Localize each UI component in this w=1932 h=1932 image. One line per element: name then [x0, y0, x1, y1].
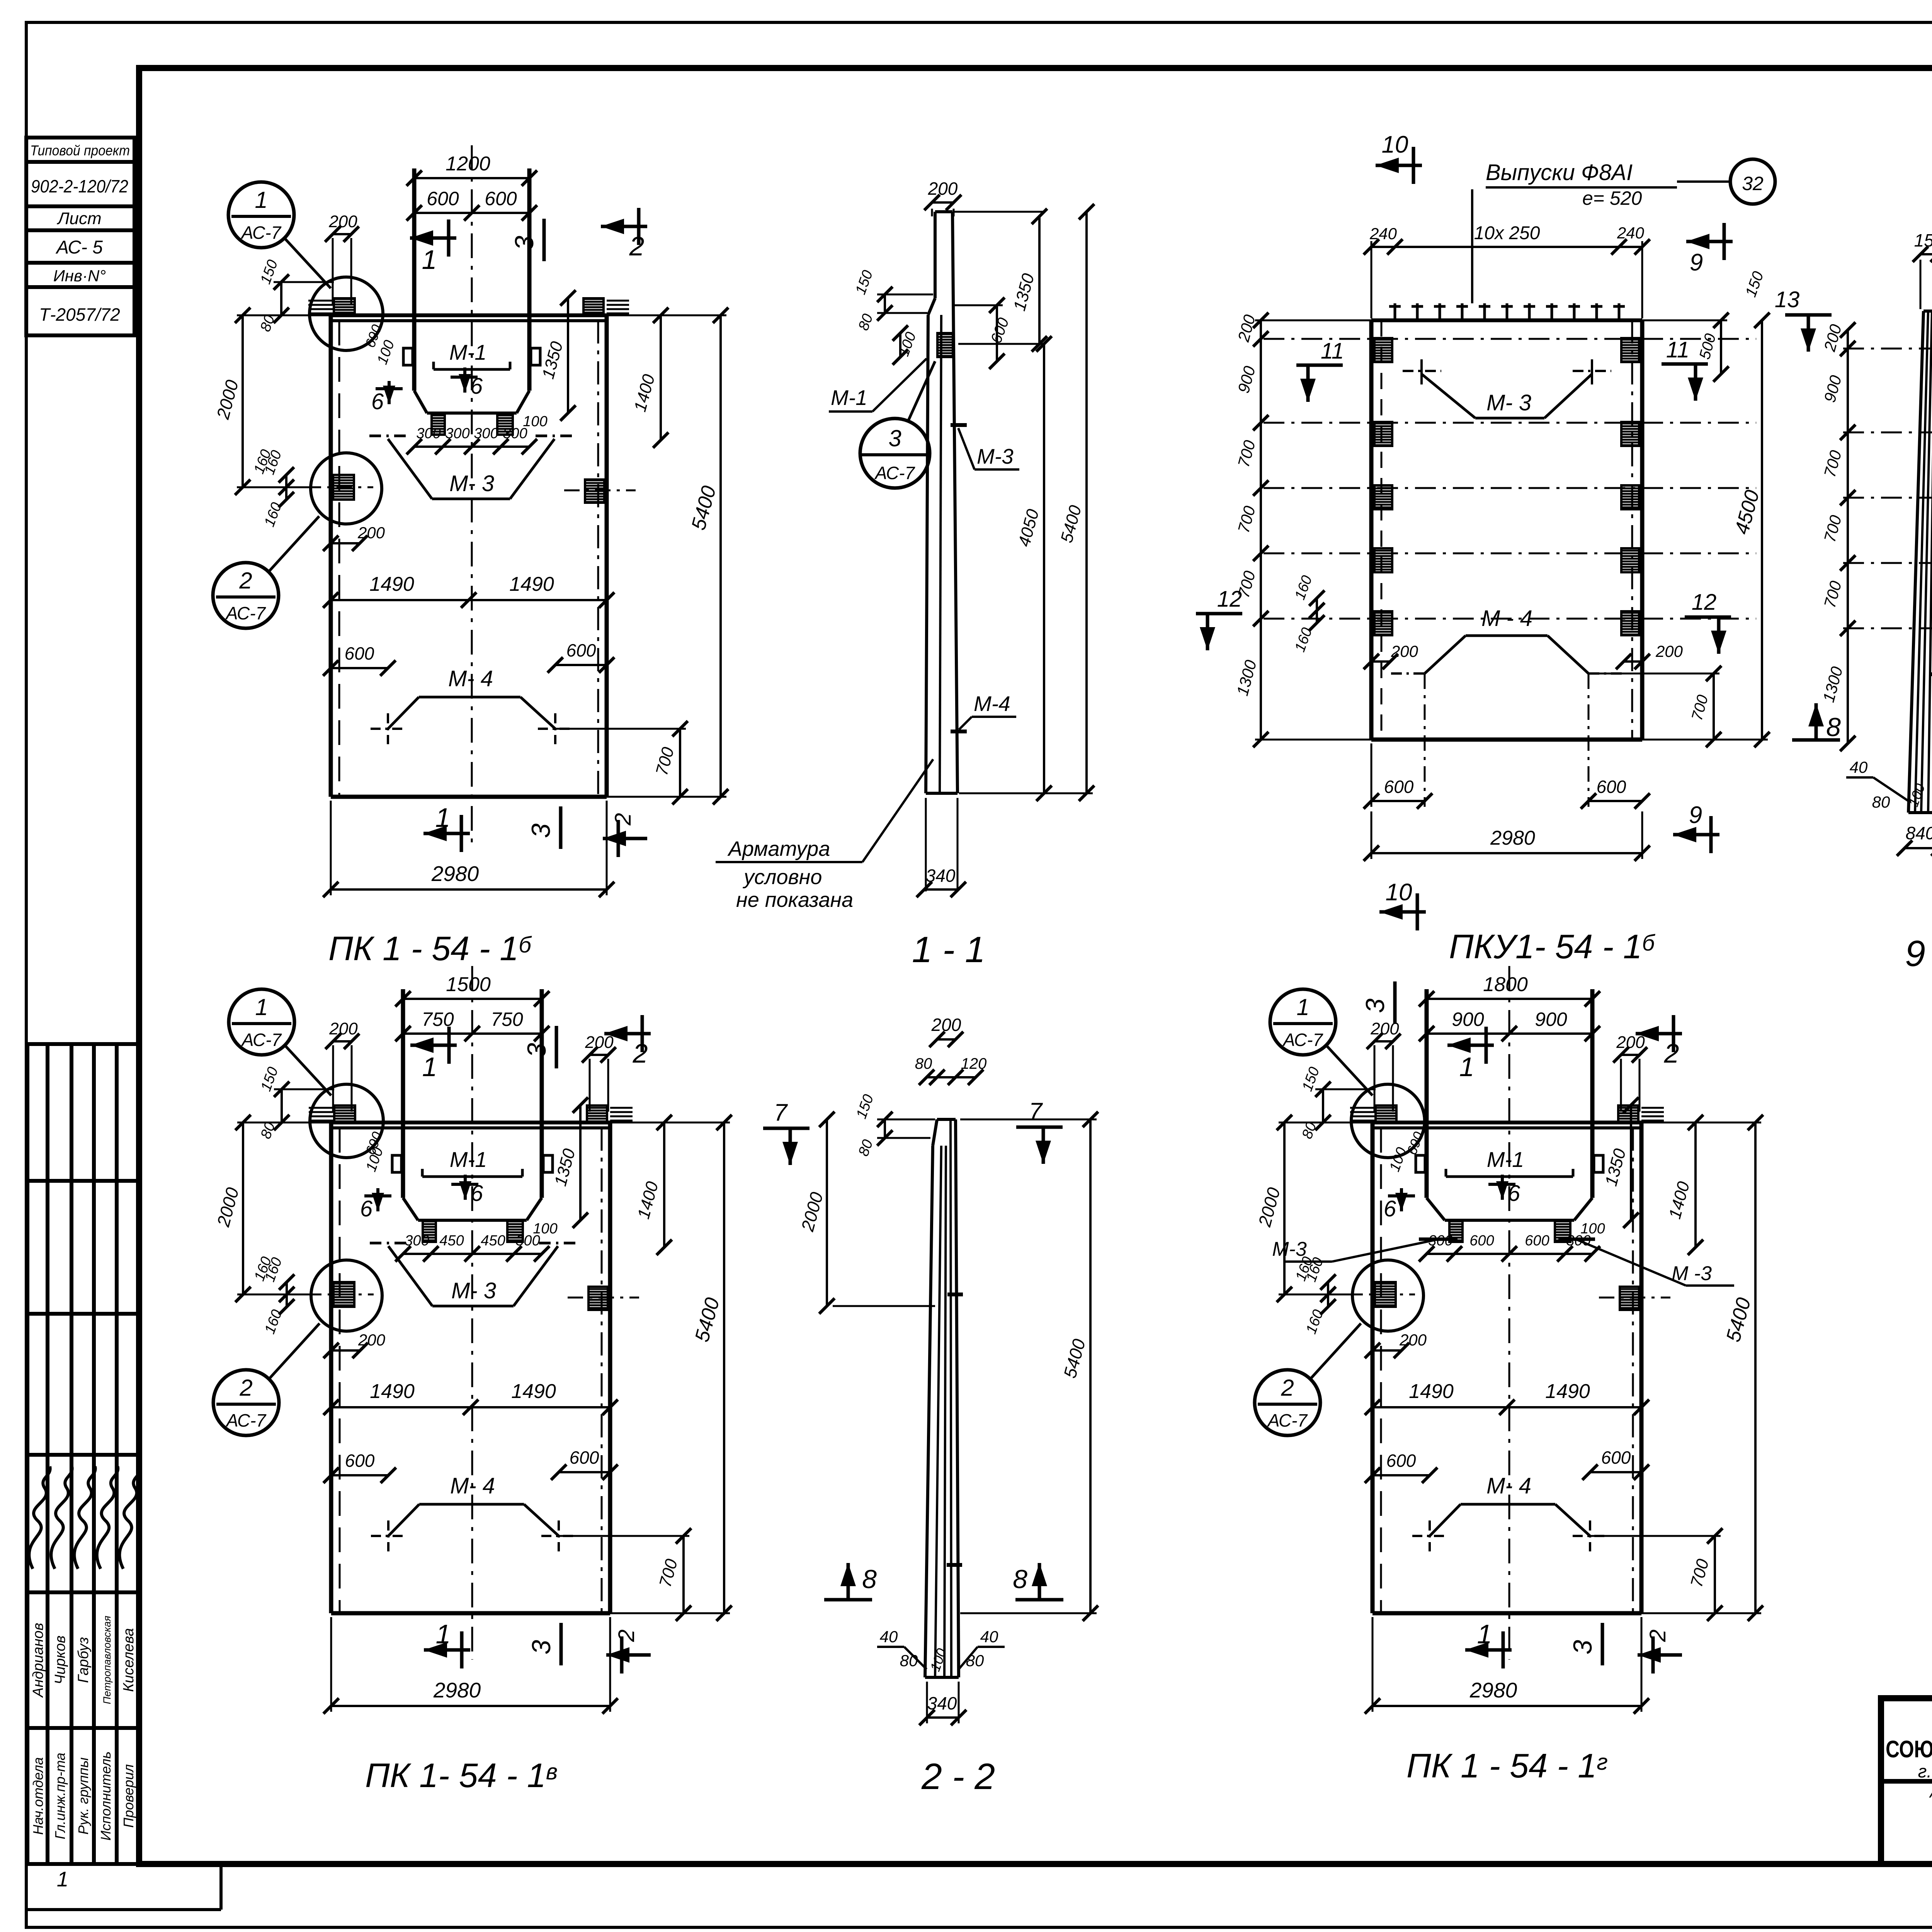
PKU bottom dims 600 600: [1371, 800, 1425, 802]
mesh M-4 panel ПК1-54-1г: [1430, 1504, 1461, 1536]
section mark 2 top panel ПК1-54-1б: [601, 225, 647, 228]
PKU dim 2980: [1371, 852, 1642, 854]
svg-text:2: 2: [1281, 1375, 1294, 1401]
svg-text:М- 4: М- 4: [450, 1473, 495, 1498]
PKU dim 700 right: [1713, 673, 1715, 740]
PKU mark 9 bottom: [1673, 833, 1719, 837]
svg-text:600: 600: [1601, 1447, 1631, 1468]
signature table: [26, 1044, 29, 1864]
svg-text:2: 2: [611, 813, 636, 826]
svg-text:условно: условно: [742, 866, 822, 889]
svg-text:6: 6: [371, 389, 384, 414]
svg-text:1: 1: [422, 1052, 437, 1082]
dim 5400 right panel ПК1-54-1б: [719, 315, 722, 797]
svg-text:12: 12: [1217, 587, 1242, 612]
dim 600 600 at M-4 panel ПК1-54-1в: [331, 1474, 388, 1476]
svg-text:Гарбуз: Гарбуз: [75, 1637, 92, 1683]
svg-text:М-1: М-1: [450, 1147, 487, 1172]
top chute dims panel ПК1-54-1б: [414, 177, 529, 179]
PKU mark 9 top: [1686, 240, 1733, 243]
svg-text:2: 2: [239, 568, 252, 594]
svg-text:Рук. группы: Рук. группы: [75, 1757, 91, 1835]
svg-text:1: 1: [255, 187, 267, 213]
svg-text:М- 3: М- 3: [451, 1278, 496, 1303]
mesh M-3 panel ПК1-54-1б: [388, 439, 432, 499]
svg-text:340: 340: [927, 1693, 957, 1713]
dim 300 row panel ПК1-54-1г: [1427, 1253, 1592, 1255]
dim 1400 right panel ПК1-54-1г: [1694, 1122, 1697, 1247]
svg-text:3: 3: [526, 823, 556, 838]
svg-text:200: 200: [328, 212, 357, 231]
svg-text:М- 3: М- 3: [449, 471, 494, 496]
svg-text:3: 3: [510, 236, 539, 250]
hopper M-1 panel ПК1-54-1б: [414, 391, 427, 413]
svg-text:Петропавловская: Петропавловская: [101, 1616, 113, 1704]
svg-text:2 - 2: 2 - 2: [921, 1756, 995, 1797]
svg-text:2980: 2980: [1469, 1678, 1517, 1702]
detail circle mid loop panel ПК1-54-1б: [311, 453, 382, 524]
sidebar stamp boxes: [26, 138, 134, 162]
svg-text:80: 80: [1872, 793, 1890, 811]
svg-text:8: 8: [1013, 1565, 1027, 1594]
chute walls panel ПК1-54-1г: [1425, 989, 1429, 1198]
top lifting loops panel ПК1-54-1г: [1376, 1105, 1396, 1122]
dim 600 600 at M-4 panel ПК1-54-1б: [331, 667, 388, 669]
svg-text:6: 6: [470, 374, 483, 399]
dim 600 600 at M-4 panel ПК1-54-1г: [1372, 1474, 1430, 1476]
detail circle top loop panel ПК1-54-1б: [310, 277, 383, 350]
svg-text:М- 3: М- 3: [1486, 390, 1531, 415]
9-9 horizontal chain lines: [1843, 348, 1932, 350]
svg-text:6: 6: [360, 1196, 373, 1221]
9-9 top dim 150: [1920, 253, 1932, 255]
dim 200 top-left loop panel ПК1-54-1б: [333, 233, 351, 235]
svg-text:3: 3: [522, 1043, 551, 1058]
svg-text:АС-7: АС-7: [1282, 1030, 1323, 1050]
dim 1350 at chute panel ПК1-54-1в: [579, 1105, 582, 1220]
svg-text:М-1: М-1: [1487, 1147, 1524, 1172]
dim 1490 1490 panel ПК1-54-1г: [1372, 1406, 1641, 1408]
svg-text:840: 840: [1906, 823, 1932, 843]
svg-text:2: 2: [629, 231, 645, 261]
svg-text:9: 9: [1689, 802, 1702, 828]
dim 2000 left panel ПК1-54-1в: [242, 1122, 244, 1294]
PKU mark 12 right: [1685, 616, 1731, 619]
svg-text:СОЮЗВОДОКАНАЛПРОЕКТ: СОЮЗВОДОКАНАЛПРОЕКТ: [1886, 1736, 1932, 1763]
svg-text:200: 200: [329, 1019, 358, 1038]
svg-text:11: 11: [1321, 338, 1344, 364]
svg-text:М-1: М-1: [449, 340, 486, 364]
1-1 wall outline: [934, 212, 937, 298]
chute walls panel ПК1-54-1б: [412, 168, 417, 391]
svg-text:ПК 1- 54 - 1в: ПК 1- 54 - 1в: [365, 1756, 558, 1794]
svg-text:600: 600: [566, 640, 596, 660]
dim 1350 at chute panel ПК1-54-1г: [1630, 1105, 1632, 1220]
section mark 2 top panel ПК1-54-1г: [1636, 1032, 1682, 1036]
svg-text:Нач.отдела: Нач.отдела: [30, 1757, 46, 1835]
2-2 mark 8 left: [824, 1598, 872, 1602]
svg-text:АС-7: АС-7: [225, 1410, 267, 1430]
PKU dim 160 160: [1316, 598, 1318, 623]
svg-text:Аэротенки - смесители: Аэротенки - смесители: [1929, 1784, 1932, 1801]
svg-text:10: 10: [1382, 131, 1408, 158]
dim 200 top-left loop panel ПК1-54-1в: [333, 1040, 352, 1043]
svg-text:АС-7: АС-7: [225, 603, 266, 623]
2-2 dim 2000: [826, 1119, 828, 1306]
top lifting loops panel ПК1-54-1в: [334, 1105, 355, 1122]
dim 1350 at chute panel ПК1-54-1б: [567, 298, 569, 413]
1-1 M-3 label: [951, 423, 967, 427]
svg-text:200: 200: [585, 1033, 614, 1052]
section marks top panel ПК1-54-1г: [1447, 1044, 1494, 1047]
svg-text:600: 600: [1469, 1233, 1494, 1249]
svg-text:1: 1: [1296, 994, 1309, 1020]
panel ПК1-54-1в body: [329, 1122, 333, 1613]
svg-text:340: 340: [926, 866, 956, 886]
dim 200 top-left loop panel ПК1-54-1г: [1374, 1040, 1393, 1043]
svg-text:М- 4: М- 4: [448, 666, 493, 691]
wire: inner dashed edges: [339, 1128, 341, 1613]
PKU mark 11 left: [1296, 364, 1343, 367]
svg-text:80: 80: [900, 1651, 918, 1670]
svg-text:Исполнитель: Исполнитель: [98, 1752, 114, 1841]
svg-text:600: 600: [1525, 1233, 1549, 1249]
svg-text:АС-7: АС-7: [240, 223, 282, 243]
svg-text:450: 450: [439, 1233, 464, 1249]
dims 150 80 topleft panel ПК1-54-1г: [1315, 1088, 1376, 1090]
PKU lifting loops: [1374, 338, 1392, 362]
wire: inner dashed edges: [338, 321, 340, 797]
svg-text:900: 900: [1452, 1009, 1484, 1030]
PKU dim 4500: [1761, 320, 1763, 740]
mesh M-4 panel ПК1-54-1в: [388, 1504, 419, 1536]
dim 1490 1490 panel ПК1-54-1б: [331, 599, 607, 601]
mesh M-3 panel ПК1-54-1в: [388, 1246, 432, 1306]
svg-text:9: 9: [1690, 249, 1703, 276]
dim 5400 right panel ПК1-54-1в: [723, 1122, 725, 1613]
dim 1400 right panel ПК1-54-1б: [660, 315, 662, 440]
section mark 2 top panel ПК1-54-1в: [604, 1032, 651, 1036]
2-2 top dims: [937, 1038, 956, 1041]
svg-text:2: 2: [614, 1629, 639, 1642]
svg-text:2: 2: [1664, 1038, 1679, 1068]
svg-text:9 - 9: 9 - 9: [1905, 933, 1932, 974]
chute walls panel ПК1-54-1в: [401, 989, 405, 1198]
dim 200 top-right loop panel ПК1-54-1г: [1621, 1054, 1639, 1056]
PKU dims 200 at bottom loops: [1371, 660, 1390, 663]
1-1 M-4 label: [951, 730, 967, 733]
svg-text:1 - 1: 1 - 1: [912, 929, 985, 970]
bottom section marks panel ПК1-54-1г: [1465, 1648, 1512, 1652]
title block: [1881, 1698, 1932, 1864]
svg-text:АС-7: АС-7: [241, 1030, 282, 1050]
svg-text:Типовой проект: Типовой проект: [30, 143, 130, 158]
PKU mesh M-3: [1422, 374, 1475, 418]
svg-text:1500: 1500: [446, 973, 491, 996]
top chute dims panel ПК1-54-1г: [1427, 998, 1592, 1000]
svg-text:6: 6: [471, 1181, 483, 1206]
svg-text:600: 600: [1386, 1451, 1416, 1471]
callout 1/AC-7 panel ПК1-54-1б: [228, 182, 294, 248]
2-2 mark 7 right: [1016, 1126, 1063, 1129]
1-1 dims left 150 80 100: [877, 294, 933, 296]
bottom section marks panel ПК1-54-1б: [423, 832, 470, 835]
svg-text:М- 4: М- 4: [1486, 1473, 1531, 1498]
svg-text:7: 7: [1029, 1098, 1043, 1125]
svg-text:Арматура: Арматура: [727, 837, 830, 861]
svg-text:6: 6: [1384, 1196, 1396, 1221]
svg-text:1490: 1490: [509, 573, 554, 595]
svg-text:Андрианов: Андрианов: [30, 1623, 46, 1698]
1-1 top dim 200: [932, 201, 954, 204]
svg-text:1: 1: [1477, 1619, 1492, 1649]
svg-text:10: 10: [1386, 879, 1412, 906]
svg-text:ПК 1 - 54 - 1г: ПК 1 - 54 - 1г: [1406, 1747, 1608, 1785]
svg-text:1490: 1490: [1409, 1380, 1454, 1403]
dim 5400 right panel ПК1-54-1г: [1754, 1122, 1757, 1613]
callout 1/AC-7 panel ПК1-54-1в: [229, 989, 294, 1055]
2-2 dim 340: [927, 1716, 959, 1719]
svg-text:600: 600: [485, 188, 517, 209]
dim 160 160 panel ПК1-54-1г: [1327, 1282, 1329, 1307]
PKU dim 500 right: [1720, 320, 1722, 374]
mesh M-4 panel ПК1-54-1б: [388, 697, 419, 729]
svg-text:11: 11: [1666, 337, 1689, 362]
PKU dim 240 10x250 240: [1371, 246, 1642, 248]
dims 150 80 topleft panel ПК1-54-1в: [274, 1088, 334, 1090]
detail circle top loop panel ПК1-54-1в: [310, 1084, 383, 1158]
1-1 dim 5400: [1085, 212, 1088, 793]
svg-text:1: 1: [436, 1619, 451, 1649]
PKU body: [1369, 320, 1374, 740]
svg-text:200: 200: [1399, 1331, 1427, 1349]
section 6 marks panel ПК1-54-1б: [388, 381, 391, 404]
9-9 mark 13 left (between PKU and 9-9): [1785, 313, 1832, 317]
svg-text:Проверил: Проверил: [121, 1764, 136, 1828]
svg-text:10х 250: 10х 250: [1474, 223, 1540, 243]
dim 700 right panel ПК1-54-1в: [682, 1536, 685, 1613]
dim 200 under mid loop panel ПК1-54-1в: [331, 1349, 360, 1352]
hopper M-1 panel ПК1-54-1г: [1427, 1198, 1445, 1220]
svg-text:600: 600: [345, 643, 374, 663]
dims 150 80 topleft panel ПК1-54-1б: [274, 281, 334, 283]
2-2 mark 8 right: [1015, 1598, 1063, 1602]
svg-text:240: 240: [1617, 224, 1645, 242]
dim 2980 panel ПК1-54-1б: [331, 888, 607, 891]
1-1 detail circle 3/AC-7: [860, 418, 930, 488]
detail circle mid loop panel ПК1-54-1г: [1352, 1260, 1423, 1331]
svg-text:40: 40: [980, 1628, 998, 1646]
svg-text:150: 150: [1914, 230, 1932, 250]
callout circle 32: [1730, 159, 1775, 204]
svg-text:Гл.инж.пр-та: Гл.инж.пр-та: [52, 1753, 68, 1839]
2-2 mark 7 left: [763, 1127, 810, 1130]
svg-text:АС- 5: АС- 5: [55, 237, 103, 258]
svg-text:2980: 2980: [431, 862, 479, 886]
dim 2000 left panel ПК1-54-1г: [1283, 1122, 1286, 1294]
svg-text:г.Москва: г.Москва: [1918, 1761, 1932, 1781]
svg-text:32: 32: [1742, 173, 1764, 194]
svg-text:600: 600: [1384, 777, 1414, 797]
svg-text:не показана: не показана: [736, 888, 853, 912]
PKU mark 10 bottom: [1379, 910, 1426, 914]
svg-text:АС-7: АС-7: [874, 463, 915, 483]
callout 2/AC-7 panel ПК1-54-1г: [1255, 1370, 1320, 1435]
svg-text:Киселева: Киселева: [121, 1628, 137, 1692]
dim 1400 right panel ПК1-54-1в: [663, 1122, 665, 1247]
svg-text:1490: 1490: [511, 1380, 556, 1403]
svg-text:2: 2: [1645, 1629, 1670, 1642]
PKU horizontal chain lines: [1264, 338, 1756, 340]
svg-text:12: 12: [1692, 590, 1717, 615]
svg-text:Чирков: Чирков: [52, 1636, 68, 1685]
svg-text:750: 750: [491, 1009, 523, 1030]
hopper M-1 panel ПК1-54-1в: [403, 1198, 418, 1220]
svg-text:600: 600: [427, 188, 459, 209]
svg-text:3: 3: [1361, 998, 1390, 1013]
section 6 marks panel ПК1-54-1г: [1400, 1188, 1403, 1211]
1-1 dim 1350: [1038, 216, 1041, 344]
svg-text:80: 80: [915, 1055, 932, 1072]
2-2 wall outline: [933, 1119, 937, 1146]
svg-text:200: 200: [928, 179, 958, 199]
1-1 dim 4050: [1043, 344, 1045, 793]
svg-text:240: 240: [1369, 224, 1397, 243]
svg-text:3: 3: [888, 425, 901, 451]
svg-text:80: 80: [966, 1651, 984, 1670]
svg-text:2980: 2980: [1490, 827, 1535, 849]
svg-text:200: 200: [931, 1015, 961, 1035]
dim 300 row panel ПК1-54-1б: [414, 446, 529, 448]
mid lifting loops panel ПК1-54-1в: [333, 1282, 354, 1307]
PKU left dim chain: [1260, 320, 1262, 740]
svg-text:Т-2057/72: Т-2057/72: [39, 304, 120, 325]
svg-text:1490: 1490: [1545, 1380, 1590, 1403]
9-9 wall outline: [1908, 311, 1923, 813]
detail circle top loop panel ПК1-54-1г: [1351, 1084, 1425, 1158]
svg-text:1: 1: [1459, 1052, 1475, 1082]
svg-text:Инв·N°: Инв·N°: [53, 267, 106, 285]
svg-text:300: 300: [405, 1233, 429, 1249]
dim 160 160 panel ПК1-54-1б: [285, 475, 287, 500]
svg-text:40: 40: [1850, 758, 1868, 776]
dim 2980 panel ПК1-54-1г: [1372, 1705, 1641, 1707]
svg-text:300: 300: [515, 1233, 540, 1249]
dim 1490 1490 panel ПК1-54-1в: [331, 1406, 610, 1408]
PKU rebar outlets (выпуски): [1394, 303, 1396, 320]
dim 200 under mid loop panel ПК1-54-1г: [1372, 1349, 1401, 1352]
svg-text:2: 2: [633, 1038, 648, 1068]
svg-text:200: 200: [1391, 642, 1418, 660]
svg-text:1490: 1490: [369, 573, 414, 595]
svg-text:902-2-120/72: 902-2-120/72: [31, 176, 128, 196]
svg-text:М-4: М-4: [974, 692, 1010, 716]
svg-text:300: 300: [445, 425, 469, 442]
svg-text:600: 600: [570, 1447, 599, 1468]
wire: inner dashed edges: [1380, 1128, 1382, 1613]
section 6 marks panel ПК1-54-1в: [376, 1188, 379, 1211]
section marks top panel ПК1-54-1в: [410, 1044, 457, 1047]
PKU mark 8 right: [1792, 738, 1840, 742]
PKU mark 12 left: [1196, 612, 1242, 616]
svg-text:1800: 1800: [1483, 973, 1528, 996]
PKU mesh M-4: [1425, 636, 1466, 673]
callout 2/AC-7 panel ПК1-54-1в: [213, 1370, 279, 1435]
callout 1/AC-7 panel ПК1-54-1г: [1270, 989, 1336, 1055]
9-9 dim 840: [1905, 847, 1932, 849]
1-1 hatched insert: [937, 333, 953, 357]
dim 2000 left panel ПК1-54-1б: [241, 315, 244, 487]
svg-text:6: 6: [1508, 1181, 1520, 1206]
1-1 dim 600 right: [996, 305, 998, 361]
svg-text:М-3: М-3: [977, 444, 1014, 468]
hopper tabs panel ПК1-54-1в: [423, 1220, 436, 1242]
mid lifting loops panel ПК1-54-1б: [333, 475, 354, 500]
dim 300 row panel ПК1-54-1в: [403, 1253, 542, 1255]
callout 2/AC-7 panel ПК1-54-1б: [213, 563, 279, 628]
signatures: [29, 1466, 50, 1569]
svg-text:200: 200: [1655, 642, 1683, 660]
svg-text:1: 1: [57, 1867, 69, 1891]
svg-text:2980: 2980: [433, 1678, 481, 1702]
svg-text:Выпуски Ф8АI: Выпуски Ф8АI: [1486, 160, 1633, 185]
svg-text:300: 300: [416, 425, 440, 442]
9-9 left dim chain: [1847, 330, 1849, 743]
svg-text:8: 8: [862, 1565, 877, 1594]
svg-text:М - 4: М - 4: [1481, 606, 1532, 631]
dim 700 right panel ПК1-54-1б: [679, 729, 681, 797]
svg-text:3: 3: [1568, 1640, 1597, 1655]
svg-text:300: 300: [474, 425, 498, 442]
bottom section marks panel ПК1-54-1в: [424, 1648, 470, 1652]
svg-text:40: 40: [880, 1628, 898, 1646]
svg-text:1490: 1490: [370, 1380, 415, 1403]
svg-text:900: 900: [1535, 1009, 1567, 1030]
PKU mark 10 top: [1376, 164, 1422, 167]
svg-text:АС-7: АС-7: [1267, 1410, 1308, 1430]
svg-text:ПКУ1- 54 - 1б: ПКУ1- 54 - 1б: [1449, 927, 1656, 966]
2-2 dim 5400: [1089, 1119, 1092, 1613]
svg-text:120: 120: [961, 1055, 987, 1072]
section marks top panel ПК1-54-1б: [410, 236, 456, 240]
detail circle mid loop panel ПК1-54-1в: [311, 1260, 382, 1331]
top chute dims panel ПК1-54-1в: [403, 998, 542, 1000]
mid lifting loops panel ПК1-54-1г: [1375, 1282, 1396, 1307]
hopper tabs panel ПК1-54-1г: [1449, 1220, 1463, 1242]
dim 200 top-right loop panel ПК1-54-1в: [590, 1054, 608, 1056]
svg-text:200: 200: [357, 524, 385, 542]
2-2 mesh marks: [947, 1293, 963, 1296]
svg-text:Лист: Лист: [56, 209, 101, 228]
svg-text:е= 520: е= 520: [1582, 187, 1642, 209]
svg-text:8: 8: [1826, 713, 1841, 742]
svg-text:1: 1: [435, 803, 451, 833]
svg-text:1: 1: [422, 245, 437, 275]
svg-text:450: 450: [481, 1233, 505, 1249]
svg-text:200: 200: [358, 1331, 386, 1349]
wire: chute centerline: [471, 145, 473, 843]
wire: chute centerline: [471, 966, 473, 1660]
2-2 dims 150 80 left: [877, 1119, 935, 1121]
dim 200 under mid loop panel ПК1-54-1б: [331, 542, 360, 544]
dim 2980 panel ПК1-54-1в: [331, 1705, 610, 1707]
panel ПК1-54-1б body: [329, 315, 333, 797]
svg-text:7: 7: [774, 1099, 788, 1126]
svg-text:3: 3: [527, 1640, 556, 1655]
svg-text:М-1: М-1: [831, 386, 867, 410]
panel ПК1-54-1г body: [1371, 1122, 1375, 1613]
wire: chute centerline: [1509, 966, 1510, 1660]
